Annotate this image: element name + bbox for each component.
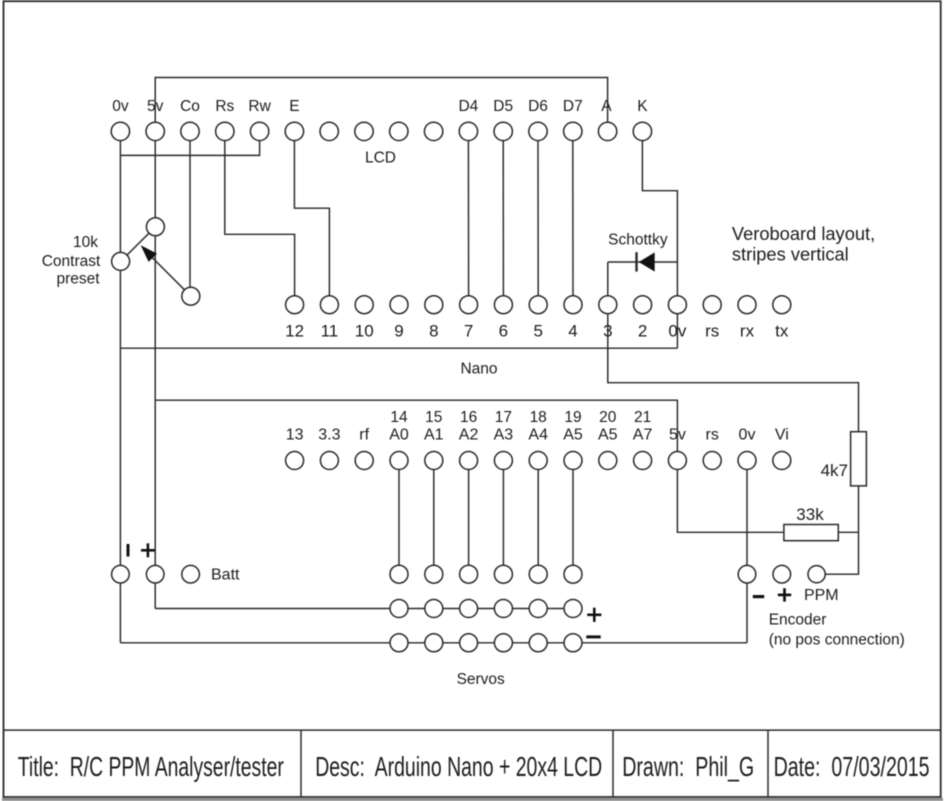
svg-text:11: 11 [321, 322, 339, 341]
svg-text:18: 18 [530, 409, 547, 426]
node LCD pad pin10 [424, 122, 442, 140]
node Nano digital pad 5 [529, 296, 547, 314]
node servo plus pad ch4 [494, 600, 512, 618]
node servo minus pad ch4 [494, 634, 512, 652]
node servo plus pad ch6 [564, 600, 582, 618]
svg-text:A5: A5 [563, 426, 583, 443]
node Nano analog pad Vi [773, 452, 791, 470]
node LCD pad D5 [494, 122, 512, 140]
labels Nano digital pin numbers [285, 322, 789, 341]
node LCD pad K [633, 122, 651, 140]
node contrast preset wiper pad (Co) [182, 287, 200, 305]
node Nano digital pad 7 [460, 296, 478, 314]
node LCD pad pin8 [355, 122, 373, 140]
svg-text:A4: A4 [528, 426, 548, 443]
svg-text:A3: A3 [494, 426, 514, 443]
svg-text:Drawn: Phil_G: Drawn: Phil_G [622, 751, 754, 782]
title block text [18, 751, 930, 782]
svg-text:preset: preset [56, 271, 100, 288]
svg-text:16: 16 [460, 409, 477, 426]
node LCD pad pin9 [390, 122, 408, 140]
node Batt + pad [146, 565, 164, 583]
svg-text:15: 15 [425, 409, 442, 426]
labels LCD pin names [112, 98, 648, 115]
svg-text:Encoder: Encoder [769, 612, 827, 629]
svg-text:Batt: Batt [211, 567, 240, 584]
symbol servo minus [586, 635, 600, 638]
svg-text:10k: 10k [73, 234, 98, 251]
svg-text:0v: 0v [739, 426, 756, 443]
svg-text:33k: 33k [796, 505, 824, 524]
svg-text:12: 12 [285, 322, 304, 341]
node Nano digital pad 2 [634, 296, 652, 314]
node servo signal pad ch5 [529, 565, 547, 583]
node LCD pad Rs [216, 122, 234, 140]
label Contrast [42, 253, 101, 270]
svg-text:9: 9 [394, 322, 403, 341]
svg-text:PPM: PPM [804, 587, 839, 604]
symbol Batt minus (vertical tick) [127, 544, 130, 557]
node Nano analog pad A7 [634, 452, 652, 470]
svg-text:Servos: Servos [457, 671, 505, 688]
svg-text:D7: D7 [563, 98, 583, 115]
svg-text:5v: 5v [669, 426, 686, 443]
svg-text:Rw: Rw [248, 98, 271, 115]
wire servo signal A4 [537, 461, 539, 575]
node LCD pad Rw [250, 122, 268, 140]
diode D1 Schottky (triangle + cathode bar) [637, 252, 655, 271]
wire servo signal A1 [433, 461, 435, 575]
svg-text:5v: 5v [147, 98, 164, 115]
node Nano digital pad 10 [355, 296, 373, 314]
node Nano analog pad A4 [529, 452, 547, 470]
node Nano analog pad A2 [460, 452, 478, 470]
svg-text:6: 6 [499, 322, 508, 341]
node Batt - pad [112, 565, 130, 583]
node servo minus pad ch3 [460, 634, 478, 652]
svg-text:Vi: Vi [775, 426, 789, 443]
resistor R1 4k7 [851, 432, 867, 486]
svg-text:(no pos connection): (no pos connection) [769, 632, 905, 649]
node encoder PPM pad [808, 566, 825, 583]
wire E to Nano pin 11 [294, 140, 329, 304]
potentiometer 10k contrast preset: track [121, 227, 156, 262]
wire 5v to LCD A (backlight) [155, 78, 607, 123]
symbol servo plus [587, 608, 601, 622]
node Nano digital pad 3 [599, 296, 617, 314]
node Nano analog pad A1 [425, 452, 443, 470]
node Nano digital pad 11 [320, 296, 338, 314]
node Nano analog pad 5v [668, 452, 686, 470]
svg-text:2: 2 [638, 322, 647, 341]
symbol Batt plus [141, 543, 155, 557]
node servo minus pad ch1 [390, 634, 408, 652]
node Nano digital pad 6 [494, 296, 512, 314]
wire Co to contrast preset wiper pad [189, 140, 191, 296]
svg-text:stripes vertical: stripes vertical [732, 244, 849, 265]
svg-text:Contrast: Contrast [42, 253, 101, 270]
svg-text:0v: 0v [668, 322, 686, 341]
node Nano digital pad tx [773, 296, 791, 314]
node contrast preset left pad (0v) [112, 252, 130, 270]
node LCD pad Co [181, 122, 199, 140]
node Nano analog pad rs [703, 452, 721, 470]
svg-text:A7: A7 [633, 426, 653, 443]
svg-text:4k7: 4k7 [821, 461, 848, 480]
node encoder minus pad [738, 565, 756, 583]
node Nano analog pad A5 [599, 452, 617, 470]
symbol encoder minus [753, 595, 764, 598]
node Nano analog pad A3 [494, 452, 512, 470]
node servo minus pad ch6 [564, 634, 582, 652]
wire 5v rail link (5v column to lower 5v pin) [155, 400, 677, 460]
node LCD pad 0v [111, 122, 129, 140]
resistor R2 33k [784, 525, 838, 541]
wire lower 0v pin to encoder minus and servo minus bus [746, 461, 748, 643]
node LCD pad D6 [529, 122, 547, 140]
wire D5 to Nano pin 6 [502, 140, 504, 304]
svg-text:LCD: LCD [365, 149, 396, 166]
svg-text:8: 8 [429, 322, 438, 341]
label Batt [211, 567, 240, 584]
wire Rw to 0v [120, 140, 259, 155]
label Nano [460, 361, 497, 378]
svg-text:rx: rx [740, 322, 755, 341]
node Nano digital pad rx [738, 296, 756, 314]
labels Nano analog alt pin numbers 14-21 [390, 409, 651, 426]
node LCD pad D7 [564, 122, 582, 140]
wire 5v column (LCD 5v / pot / Batt + / servo plus) [154, 140, 156, 608]
label Encoder (no pos connection) [769, 612, 905, 649]
svg-text:A2: A2 [459, 426, 479, 443]
node Nano analog pad 0v [738, 452, 756, 470]
wire D6 to Nano pin 5 [537, 140, 539, 304]
svg-text:rs: rs [705, 322, 719, 341]
node encoder plus pad (unconnected) [773, 565, 791, 583]
node servo plus pad ch5 [529, 600, 547, 618]
label 33k value [796, 505, 824, 524]
svg-text:K: K [637, 98, 648, 115]
node servo signal pad ch3 [460, 565, 478, 583]
svg-text:A1: A1 [424, 426, 444, 443]
svg-text:0v: 0v [112, 98, 129, 115]
svg-text:Co: Co [180, 98, 200, 115]
node servo signal pad ch1 [390, 565, 408, 583]
node Nano digital pad rs [703, 296, 721, 314]
svg-text:5: 5 [533, 322, 542, 341]
node servo minus pad ch2 [425, 634, 443, 652]
wire servo signal A0 [398, 461, 400, 575]
node servo signal pad ch2 [425, 565, 443, 583]
node LCD pad 5v [146, 122, 164, 140]
svg-text:Date: 07/03/2015: Date: 07/03/2015 [774, 751, 930, 782]
svg-text:A: A [601, 98, 612, 115]
node LCD pad D4 [459, 122, 477, 140]
svg-text:Veroboard layout,: Veroboard layout, [732, 223, 875, 244]
label Schottky [608, 232, 668, 249]
node servo plus pad ch2 [425, 600, 443, 618]
svg-text:tx: tx [775, 322, 789, 341]
label 4k7 value [821, 461, 848, 480]
label PPM [804, 587, 839, 604]
node Nano analog pad rf [355, 452, 373, 470]
svg-text:rs: rs [706, 426, 719, 443]
wire D4 to Nano pin 7 [467, 140, 469, 304]
svg-text:21: 21 [634, 409, 651, 426]
svg-text:Title: R/C PPM Analyser/teste: Title: R/C PPM Analyser/tester [18, 751, 284, 782]
wire servo signal A5 [572, 461, 574, 575]
label preset [56, 271, 100, 288]
wire lower 5v pin to 33k left lead [677, 461, 784, 533]
node Nano digital pad 9 [390, 296, 408, 314]
svg-text:rf: rf [359, 426, 369, 443]
label Veroboard layout, stripes vertical [732, 223, 875, 265]
wire 0v column (LCD 0v / pot / Batt - / servo minus) [119, 140, 121, 642]
node servo plus pad ch1 [390, 600, 408, 618]
svg-text:Nano: Nano [460, 361, 497, 378]
symbol encoder plus [778, 588, 791, 601]
svg-text:Rs: Rs [215, 98, 234, 115]
node Nano analog pad A5 [564, 452, 582, 470]
wire Nano pin 3 to 4k7 resistor [608, 305, 859, 432]
wire K to Nano 0v pin [642, 140, 677, 348]
svg-text:7: 7 [464, 322, 473, 341]
node LCD pad A [598, 122, 616, 140]
node servo signal pad ch6 [564, 565, 582, 583]
svg-text:14: 14 [390, 409, 408, 426]
bottom grey strip [2, 798, 943, 801]
node Nano analog pad 13 [286, 452, 304, 470]
svg-text:A0: A0 [389, 426, 409, 443]
node Batt spare pad [182, 565, 200, 583]
potentiometer 10k contrast preset: wiper arm with arrow [141, 245, 191, 296]
node Nano digital pad 4 [564, 296, 582, 314]
node LCD pad pin7 [320, 122, 338, 140]
svg-text:E: E [289, 98, 299, 115]
wire servo signal A3 [502, 461, 504, 575]
label LCD [365, 149, 396, 166]
wire 0v rail link (0v column to Nano 0v pin) [120, 347, 677, 349]
node servo signal pad ch4 [494, 565, 512, 583]
wire servo plus bus [155, 608, 573, 610]
wire servo minus bus [120, 642, 747, 644]
svg-text:Schottky: Schottky [608, 232, 668, 249]
svg-text:19: 19 [564, 409, 581, 426]
svg-text:Desc: Arduino Nano + 20x4 LCD: Desc: Arduino Nano + 20x4 LCD [315, 751, 602, 782]
svg-text:4: 4 [568, 322, 577, 341]
svg-text:17: 17 [495, 409, 512, 426]
wire 4k7 bottom to PPM pad [817, 486, 859, 574]
wire servo signal A2 [468, 461, 470, 575]
wire Schottky diode net (Nano pin 3 to K/0v column) [608, 262, 678, 305]
label 10k contrast preset value [73, 234, 98, 251]
svg-text:D4: D4 [458, 98, 478, 115]
svg-text:D6: D6 [528, 98, 548, 115]
svg-text:D5: D5 [493, 98, 513, 115]
node Nano analog pad 3.3 [320, 452, 338, 470]
wire Rs to Nano pin 12 [225, 140, 295, 304]
wire D7 to Nano pin 4 [572, 140, 574, 304]
node LCD pad E [285, 122, 303, 140]
node Nano digital pad 8 [425, 296, 443, 314]
node Nano digital pad 0v [668, 296, 686, 314]
node contrast preset top pad (5v) [146, 218, 164, 236]
wire 33k right lead to 4k7 column [838, 531, 858, 533]
node Nano digital pad 12 [286, 296, 304, 314]
svg-text:A5: A5 [598, 426, 618, 443]
svg-text:10: 10 [355, 322, 374, 341]
svg-text:3: 3 [603, 322, 612, 341]
labels Nano analog pin names [286, 426, 789, 443]
label Servos [457, 671, 505, 688]
svg-text:3.3: 3.3 [318, 426, 340, 443]
node servo plus pad ch3 [460, 600, 478, 618]
svg-text:20: 20 [599, 409, 617, 426]
node servo minus pad ch5 [529, 634, 547, 652]
node Nano analog pad A0 [390, 452, 408, 470]
svg-text:13: 13 [286, 426, 304, 443]
